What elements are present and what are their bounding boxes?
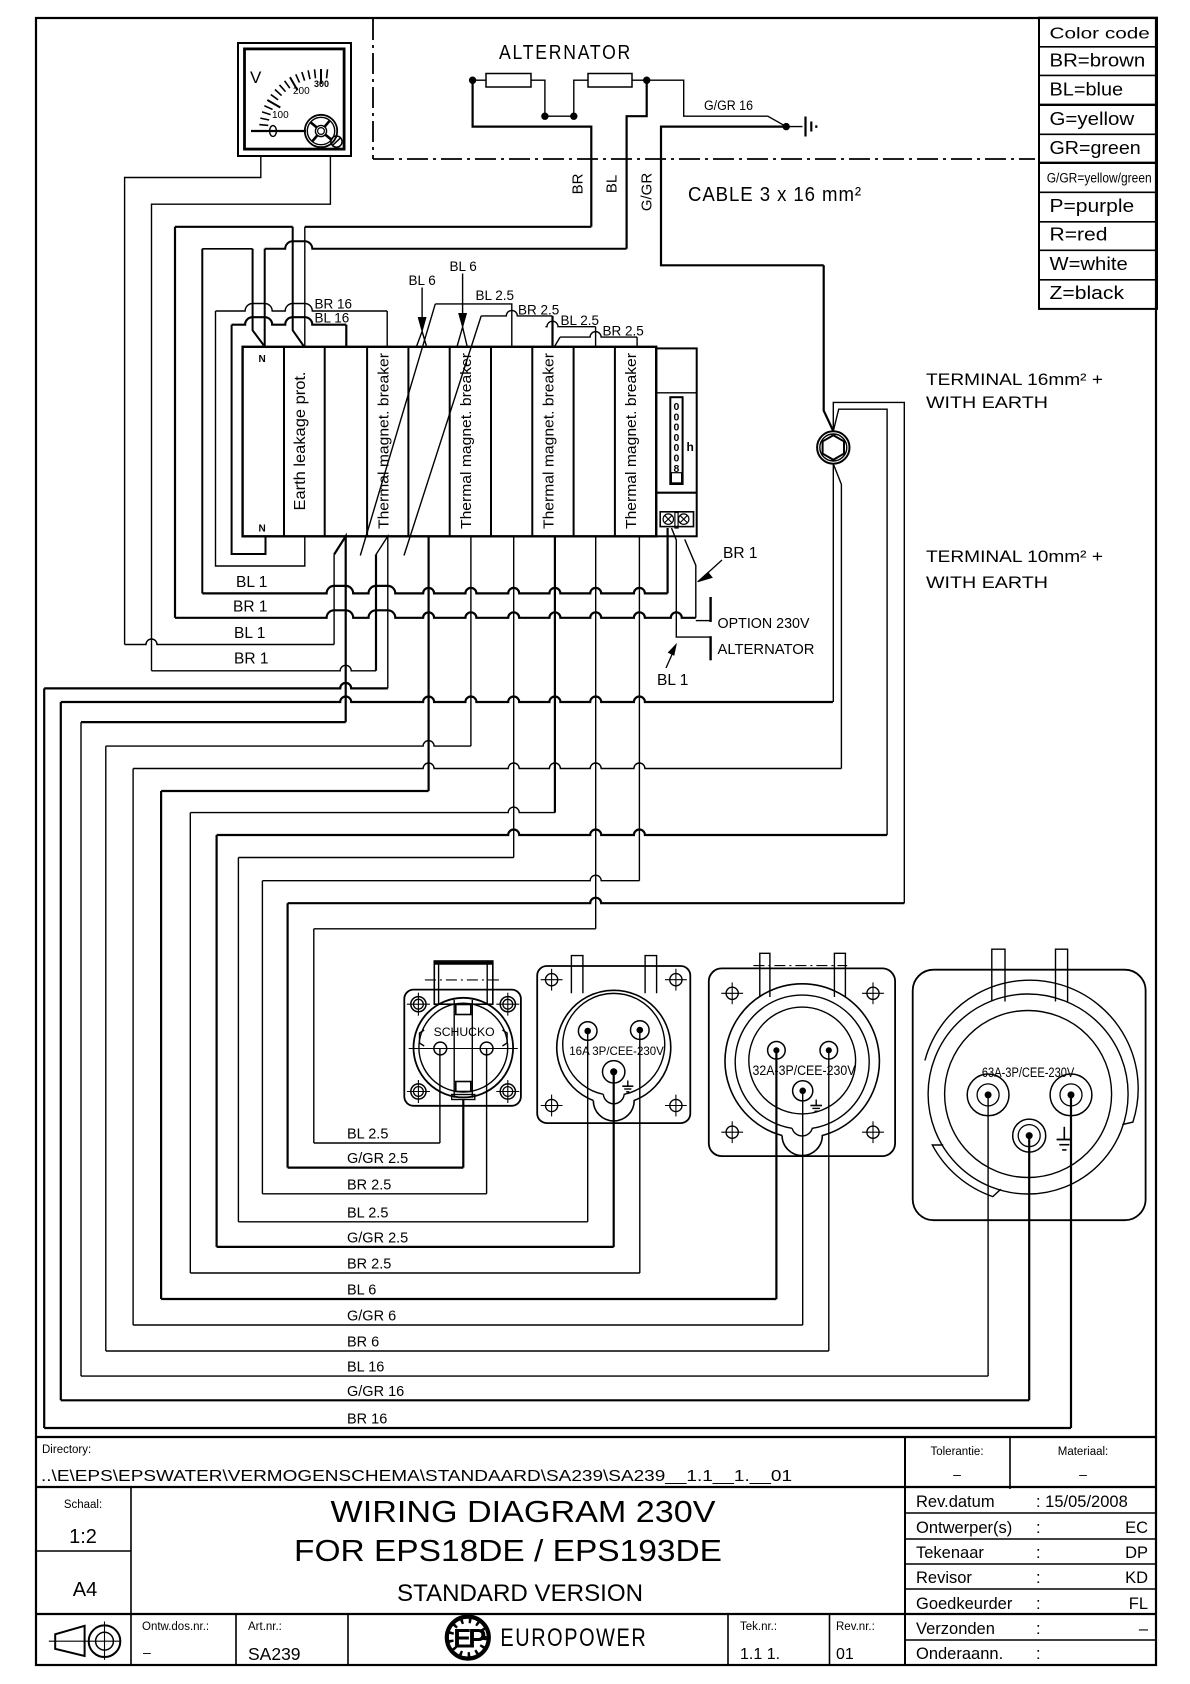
wire BL feeder (627, 80, 647, 249)
svg-text:BR 2.5: BR 2.5 (347, 1177, 391, 1193)
svg-text:–: – (1079, 1466, 1087, 1482)
wire BL 16 (232, 317, 347, 325)
svg-text:KD: KD (1125, 1569, 1148, 1587)
svg-text:Thermal magnet. breaker: Thermal magnet. breaker (541, 353, 558, 529)
wire BL rail (265, 241, 627, 249)
voltmeter adjuster screw (331, 136, 342, 147)
wire N-top riser B (264, 249, 266, 347)
16A earth symbol (627, 1081, 629, 1087)
terminal X1 16mm2 with earth (817, 431, 849, 463)
svg-text:BR 2.5: BR 2.5 (347, 1257, 391, 1273)
wire BL 2.5 schuko left riser (313, 929, 315, 1143)
63A earth symbol (1063, 1127, 1065, 1140)
63A mounting tab left (992, 949, 1005, 1001)
wire col9 drop (595, 536, 597, 929)
wire G/GR 6 32A socket riser (802, 1091, 804, 1325)
svg-text:SA239: SA239 (248, 1644, 301, 1664)
aux outlet screw right (679, 514, 689, 524)
svg-text:BR 6: BR 6 (347, 1335, 379, 1351)
32A well mid (735, 995, 869, 1136)
svg-text:G/GR 2.5: G/GR 2.5 (347, 1151, 408, 1167)
svg-text:G/GR: G/GR (639, 173, 656, 212)
bottom contact V col4 (376, 536, 388, 688)
wire BL 16 left wrap (232, 325, 266, 554)
voltmeter V1 inner bezel (245, 49, 345, 149)
32A pin L (768, 1042, 786, 1060)
svg-text:BL=blue: BL=blue (1050, 79, 1124, 100)
wire BR 6 32A socket riser (828, 1050, 830, 1351)
wire BR 16 (216, 304, 388, 312)
wire G/GR to terminal X1 (824, 265, 834, 431)
bus BL1 meter (125, 639, 335, 645)
option 230V tap bracket (709, 597, 711, 622)
svg-text:..\E\EPS\EPSWATER\VERMOGENSCHE: ..\E\EPS\EPSWATER\VERMOGENSCHEMA\STANDAA… (41, 1468, 792, 1485)
svg-text:STANDARD VERSION: STANDARD VERSION (397, 1580, 643, 1607)
16A mounting tab left (571, 956, 583, 994)
16A pin L (578, 1022, 597, 1041)
svg-text:–: – (143, 1644, 151, 1660)
63A locking ring arc B (932, 1145, 1001, 1197)
wire BL 16 63A left riser (80, 722, 82, 1376)
wire BL 6 32A socket riser (775, 1050, 777, 1299)
schuko plate (404, 990, 521, 1106)
node J2 (542, 113, 548, 119)
wire terminal X1 down aux (833, 464, 841, 769)
63A well inner ring (945, 1011, 1112, 1178)
aux outlet pin (675, 513, 678, 529)
bus BR 2.5 b horizontal (262, 875, 639, 881)
svg-text:Revisor: Revisor (916, 1569, 972, 1587)
wire col6 drop (470, 536, 472, 746)
wire outlet left to BL1 bus (666, 528, 668, 593)
wire G/GR 16 63A feed row (61, 1399, 1029, 1401)
wire col7 drop (513, 536, 515, 857)
bus BL 2.5 b horizontal (314, 928, 596, 930)
svg-text:FL: FL (1129, 1595, 1148, 1613)
wire BR 2.5 drop to Q3 (551, 316, 553, 347)
svg-text:OPTION 230V: OPTION 230V (718, 616, 810, 632)
wire G/GR 2.5 schuko feed row (288, 1166, 464, 1168)
svg-text:Rev.datum: Rev.datum (916, 1493, 995, 1511)
alternator tap bracket (709, 636, 711, 660)
bottom contact aux col4 (375, 555, 377, 671)
wire BR 2.5 drop to Q4 (636, 337, 638, 347)
EUROPOWER logo (447, 1617, 489, 1659)
wire BR 2.5 schuko socket riser (486, 1049, 488, 1194)
bus BL1 (202, 586, 667, 594)
contact stub Q3 (554, 337, 560, 347)
wire terminal X1 down (832, 464, 834, 702)
wire Earth-top riser A (293, 227, 305, 347)
wire Earth-top riser B (304, 227, 306, 347)
wire BL 2.5 drop to col9 (595, 327, 597, 347)
svg-text::: : (1036, 1519, 1041, 1537)
wire BL 2.5 16A socket riser (587, 1031, 589, 1222)
svg-text:Tolerantie:: Tolerantie: (930, 1446, 983, 1458)
svg-text:100: 100 (272, 110, 289, 121)
schuko well outer (414, 998, 514, 1098)
svg-text:Rev.nr.:: Rev.nr.: (836, 1621, 875, 1633)
schuko well inner (419, 1003, 508, 1092)
svg-text:WIRING DIAGRAM 230V: WIRING DIAGRAM 230V (331, 1494, 716, 1529)
svg-text::: : (1036, 1595, 1041, 1613)
wire G/GR 2.5 16A socket riser (613, 1072, 615, 1247)
63A mounting tab right (1056, 949, 1068, 1001)
projection symbol (55, 1626, 84, 1656)
svg-text:Thermal magnet. breaker: Thermal magnet. breaker (375, 353, 392, 529)
wire G/GR 2.5 16A feed row (217, 1246, 614, 1248)
wire BL 2.5 chain b (545, 321, 595, 326)
wire G/GR 2.5 16A left riser (216, 835, 218, 1247)
svg-text:BL 2.5: BL 2.5 (347, 1205, 388, 1221)
svg-text::: : (1036, 1645, 1041, 1663)
svg-text:BR 1: BR 1 (723, 545, 757, 562)
svg-text:32A-3P/CEE-230V: 32A-3P/CEE-230V (753, 1063, 856, 1078)
bus G/GR 2.5 b horizontal (288, 898, 905, 904)
wire col8 drop (554, 536, 556, 812)
svg-text:1.1 1.: 1.1 1. (740, 1646, 780, 1663)
schuko side contact left (420, 1030, 425, 1046)
wire BL 2.5 chain a (435, 304, 512, 347)
63A locking ring arc A (925, 980, 1138, 1124)
svg-text:TERMINAL 16mm² +: TERMINAL 16mm² + (926, 371, 1103, 389)
title block grid (36, 1437, 1156, 1665)
wire G/GR 2.5 schuko left riser (287, 903, 289, 1167)
svg-text:G/GR 16: G/GR 16 (347, 1384, 404, 1400)
alternator winding W2 (588, 74, 632, 88)
svg-text:CABLE 3 x 16 mm²: CABLE 3 x 16 mm² (688, 184, 862, 206)
svg-text:N: N (259, 524, 266, 535)
node J4 (644, 77, 650, 83)
voltmeter adjuster knob (305, 115, 337, 147)
svg-text:Ontwerper(s): Ontwerper(s) (916, 1519, 1012, 1537)
aux outlet screw left (663, 514, 673, 524)
hour counter window (670, 397, 682, 484)
svg-text:BL 2.5: BL 2.5 (476, 288, 515, 303)
svg-text:Thermal magnet. breaker: Thermal magnet. breaker (623, 353, 640, 529)
svg-text:BL 16: BL 16 (315, 311, 350, 326)
svg-text:A4: A4 (73, 1579, 97, 1601)
svg-text:BL 1: BL 1 (657, 672, 688, 689)
svg-text:BR 1: BR 1 (233, 599, 267, 616)
svg-text:Color code: Color code (1050, 26, 1150, 43)
wire BR rail left (175, 226, 293, 228)
svg-text:P=purple: P=purple (1050, 195, 1135, 216)
svg-text:V: V (250, 68, 262, 87)
wire BR 6 32A feed row (106, 1350, 829, 1352)
schuko screw TL (411, 997, 426, 1012)
svg-text:: 15/05/2008: : 15/05/2008 (1036, 1493, 1128, 1511)
svg-text:ALTERNATOR: ALTERNATOR (499, 42, 632, 64)
svg-text:G/GR=yellow/green: G/GR=yellow/green (1047, 171, 1152, 186)
voltmeter scale label 0 (270, 126, 277, 137)
svg-text:BR 16: BR 16 (347, 1412, 387, 1428)
svg-text:BL: BL (604, 175, 621, 193)
32A socket plate (709, 968, 895, 1156)
wire G/GR 6 32A feed row (133, 1324, 803, 1326)
schuko screw BR (500, 1084, 515, 1099)
svg-text:1:2: 1:2 (69, 1526, 97, 1548)
wire G/GR 6 32A left riser (132, 769, 134, 1326)
svg-text:BL 6: BL 6 (409, 273, 436, 288)
wire voltmeter right lead (152, 156, 331, 671)
svg-text:BL 6: BL 6 (450, 259, 477, 274)
wire BR 2.5 16A feed row (190, 1272, 640, 1274)
arrow BL 1 (666, 650, 674, 668)
svg-text:Tekenaar: Tekenaar (916, 1544, 984, 1562)
alternator winding W1 (486, 74, 531, 88)
svg-text:EUROPOWER: EUROPOWER (500, 1624, 647, 1652)
svg-text:BR 16: BR 16 (315, 297, 353, 312)
svg-text:BL 16: BL 16 (347, 1360, 384, 1376)
breaker blade Q1 (360, 304, 435, 556)
svg-text:BL 6: BL 6 (347, 1283, 376, 1299)
svg-text:TERMINAL 10mm² +: TERMINAL 10mm² + (926, 548, 1103, 566)
wire BR1 riser (174, 227, 176, 618)
63A well mid ring (928, 994, 1128, 1194)
32A earth symbol (815, 1100, 817, 1106)
svg-text:200: 200 (293, 86, 310, 97)
earth symbol E1 (804, 117, 806, 137)
wire BL 6 arrow Q1 (421, 288, 423, 319)
wire BR 16 left wrap (216, 311, 305, 566)
svg-text:63A-3P/CEE-230V: 63A-3P/CEE-230V (982, 1065, 1074, 1080)
32A screw BL (726, 1126, 738, 1138)
wire BR 2.5 schuko left riser (261, 881, 263, 1194)
wire J3 to W2 (574, 80, 588, 116)
schuko earth clip top (456, 1005, 471, 1015)
svg-text:Schaal:: Schaal: (64, 1499, 102, 1511)
32A screw TL (726, 987, 738, 999)
svg-text:16A 3P/CEE-230V: 16A 3P/CEE-230V (569, 1044, 664, 1058)
voltmeter needle (251, 130, 306, 132)
svg-text:Verzonden: Verzonden (916, 1620, 995, 1638)
bus G/GR 6 horizontal (133, 763, 841, 768)
wire BR 2.5 chain b (560, 332, 637, 338)
wire BL 2.5 16A feed row (238, 1221, 587, 1223)
svg-text:W=white: W=white (1050, 253, 1128, 274)
hour counter blank cell (671, 473, 681, 483)
svg-text:Art.nr.:: Art.nr.: (248, 1621, 282, 1633)
16A pin R (631, 1021, 650, 1040)
node J3 (571, 113, 577, 119)
svg-text:–: – (953, 1466, 961, 1482)
63A pin L (967, 1074, 1009, 1116)
wire J1 to W1 (473, 79, 486, 81)
32A pin E (793, 1081, 813, 1101)
16A screw BL (546, 1099, 558, 1111)
bus BL 6 horizontal (161, 790, 429, 792)
wire BR 2.5 chain a (481, 310, 552, 316)
svg-text:N: N (259, 354, 266, 365)
svg-text:GR=green: GR=green (1050, 137, 1141, 158)
wire BR 16 63A feed row (44, 1427, 1071, 1429)
svg-text:WITH EARTH: WITH EARTH (926, 394, 1048, 412)
wire col10 drop (638, 536, 640, 880)
32A pin R (820, 1042, 838, 1060)
color code table grid (1039, 18, 1157, 309)
wire N-top riser A (253, 249, 265, 347)
svg-text:BR: BR (570, 173, 587, 194)
wire col5 drop (428, 536, 430, 791)
16A well inner (563, 993, 665, 1103)
32A center mark (753, 965, 847, 967)
schuko center mark (425, 979, 503, 981)
16A socket plate (537, 966, 690, 1123)
16A screw BR (670, 1099, 682, 1111)
svg-text:SCHUCKO: SCHUCKO (434, 1027, 495, 1039)
bus BL 16 horizontal (81, 721, 346, 723)
wire BR 2.5 16A socket riser (639, 1030, 641, 1273)
wire BR 16 63A socket riser (1070, 1095, 1072, 1428)
svg-text:Materiaal:: Materiaal: (1058, 1446, 1109, 1458)
svg-text:DP: DP (1125, 1544, 1148, 1562)
bus G/GR 16 horizontal (61, 697, 833, 703)
svg-text:BR=brown: BR=brown (1050, 50, 1146, 71)
schuko side contact right (502, 1030, 507, 1046)
bus BR 16 horizontal (44, 683, 388, 689)
32A well outer (725, 984, 879, 1156)
wire BR 16 drop to breaker T1 (386, 311, 388, 347)
svg-text:Goedkeurder: Goedkeurder (916, 1595, 1013, 1613)
svg-text:01: 01 (836, 1646, 854, 1663)
schuko earth strip (453, 1000, 455, 1098)
node J1 (469, 77, 475, 83)
wire BL 16 drop to block (345, 325, 347, 347)
voltmeter scale arc ticks (259, 69, 327, 131)
16A well outer (557, 990, 671, 1121)
wire terminal X1 branch (833, 409, 887, 835)
schuko earth clip bottom (456, 1082, 471, 1092)
svg-text:Onderaann.: Onderaann. (916, 1645, 1003, 1663)
wire BR feeder (473, 80, 592, 227)
svg-text:BR 2.5: BR 2.5 (603, 324, 644, 339)
wire W2 to J4 (632, 79, 647, 81)
16A screw TR (670, 974, 682, 986)
schuko pin L (434, 1042, 447, 1055)
wire BL 6 32A left riser (160, 791, 162, 1299)
schuko crosshair (409, 1048, 518, 1050)
svg-text::: : (1036, 1620, 1041, 1638)
schuko pin R (480, 1042, 493, 1055)
schuko screw BL (411, 1084, 426, 1099)
bottom contact aux col3 (333, 555, 335, 645)
svg-text::: : (1036, 1544, 1041, 1562)
wire BL 2.5 schuko feed row (314, 1142, 440, 1144)
svg-text:R=red: R=red (1050, 224, 1108, 245)
bus BR1 (175, 610, 696, 618)
bus G/GR 2.5 horizontal (217, 830, 888, 835)
svg-text:BL 1: BL 1 (234, 625, 265, 642)
wire terminal X1 branch 2 (833, 402, 904, 903)
wire W1 to J2 (531, 80, 545, 116)
svg-text:Ontw.dos.nr.:: Ontw.dos.nr.: (142, 1621, 209, 1633)
32A screw TR (867, 987, 879, 999)
svg-text:EC: EC (1125, 1519, 1148, 1537)
wire BL 2.5 schuko socket riser (439, 1049, 441, 1144)
svg-text:Directory:: Directory: (42, 1444, 91, 1456)
63A socket plate (913, 970, 1146, 1220)
arrow BR 1 (701, 560, 722, 579)
hour counter digits 0000008 (673, 401, 679, 475)
wire BR 16 63A left riser (43, 688, 45, 1428)
breaker blade Q2 (404, 316, 481, 556)
wire G/GR 16 63A left riser (60, 702, 62, 1400)
63A pin R (1050, 1074, 1092, 1116)
bus BR1 meter (152, 665, 377, 671)
32A well inner (749, 1007, 856, 1114)
svg-text:G/GR 16: G/GR 16 (704, 98, 753, 113)
distribution block outline and dividers (243, 347, 657, 537)
32A mounting tab left (760, 953, 770, 997)
svg-text:ALTERNATOR: ALTERNATOR (718, 642, 815, 658)
wire BL rail stub (202, 248, 252, 250)
bus BR 2.5 horizontal (190, 807, 555, 813)
16A pin E (603, 1061, 625, 1083)
wire BL 16 63A feed row (81, 1375, 988, 1377)
svg-text:BR 1: BR 1 (234, 651, 268, 668)
svg-text:BL 1: BL 1 (236, 574, 267, 591)
svg-text:–: – (1139, 1620, 1149, 1638)
svg-text:300: 300 (314, 79, 329, 89)
32A screw BR (867, 1126, 879, 1138)
svg-text:h: h (687, 440, 694, 454)
svg-text:Z=black: Z=black (1050, 282, 1125, 303)
wire BR 6 32A left riser (105, 746, 107, 1351)
wire J2 to J3 (545, 115, 574, 117)
16A screw TL (546, 974, 558, 986)
svg-text:Tek.nr.:: Tek.nr.: (740, 1621, 777, 1633)
wire G/GR feeder (661, 127, 824, 266)
schuko screw TR (500, 997, 515, 1012)
svg-text:G=yellow: G=yellow (1050, 108, 1135, 129)
svg-text::: : (1036, 1569, 1041, 1587)
wire J4 to earth (G/GR 16) (647, 80, 803, 126)
wire BL 6 arrow Q2 (462, 274, 464, 315)
bus BR 6 horizontal (106, 741, 471, 747)
contact V Q1 (416, 331, 426, 347)
wire BL 2.5 16A left riser (237, 858, 239, 1222)
bottom contact V col3 (334, 536, 346, 722)
machine boundary dash-dot line (373, 19, 1035, 159)
svg-text:WITH EARTH: WITH EARTH (926, 574, 1048, 592)
wire BL 16 63A socket riser (987, 1095, 989, 1376)
wire outlet to BR1 bus (685, 539, 696, 617)
svg-text:G/GR 2.5: G/GR 2.5 (347, 1230, 408, 1246)
svg-text:BL 2.5: BL 2.5 (561, 313, 600, 328)
wire voltmeter left lead (125, 156, 261, 645)
svg-text:G/GR 6: G/GR 6 (347, 1309, 396, 1325)
wire BL 6 32A feed row (161, 1298, 776, 1300)
wire G/GR 16 63A socket riser (1028, 1136, 1030, 1401)
svg-text:BL 2.5: BL 2.5 (347, 1127, 388, 1143)
node J5 (783, 123, 789, 129)
aux outlet terminal box (660, 512, 693, 527)
svg-text:Earth leakage prot.: Earth leakage prot. (292, 372, 309, 511)
wire BL1 riser (201, 249, 203, 594)
contact V Q2 (457, 327, 467, 347)
wire BR 2.5 16A left riser (189, 813, 191, 1273)
bus BL 2.5 horizontal (238, 857, 513, 859)
16A mounting tab right (645, 956, 657, 994)
svg-text:FOR EPS18DE / EPS193DE: FOR EPS18DE / EPS193DE (294, 1533, 722, 1568)
63A pin E (1013, 1119, 1046, 1152)
wire G/GR 2.5 schuko socket riser (462, 1100, 464, 1168)
32A mounting tab right (834, 953, 845, 997)
schuko mounting tab (434, 961, 493, 1004)
wire outlet to alternator tap (672, 528, 711, 637)
voltmeter V1 outer case (238, 43, 351, 156)
